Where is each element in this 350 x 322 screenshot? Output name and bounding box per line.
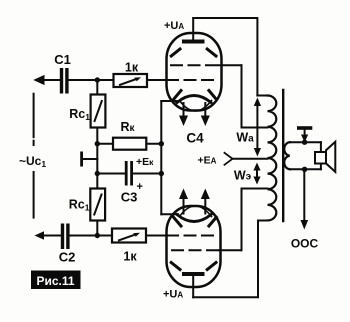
svg-text:+: + — [137, 181, 143, 193]
input source line ~Uc1 — [19, 94, 46, 218]
svg-text:Рис.11: Рис.11 — [36, 274, 74, 288]
wire R2 to V2 grid — [146, 235, 167, 237]
V2 screen grid (dashed) — [172, 249, 242, 251]
V2 beam plates — [171, 217, 216, 269]
svg-text:Rк: Rк — [121, 120, 136, 134]
resistor Rc1 (bottom) — [69, 174, 105, 236]
V2 control grid (dashed) — [167, 235, 214, 237]
node secondary bottom — [302, 167, 307, 172]
V2 anode — [182, 272, 205, 297]
V2 cathode stub to rail — [161, 213, 178, 215]
OOC feedback arrow — [291, 169, 319, 250]
transformer secondary winding — [284, 142, 321, 169]
node B — [95, 141, 100, 146]
svg-text:~Uc1: ~Uc1 — [19, 154, 46, 169]
capacitor C1 — [35, 52, 71, 94]
node D — [95, 171, 100, 176]
svg-text:C2: C2 — [59, 250, 76, 265]
transformer T1 primary winding — [232, 96, 276, 221]
V1 control grid (dashed) — [167, 79, 214, 81]
svg-text:+UА: +UА — [164, 20, 184, 32]
ground (secondary top, T-bar) — [297, 126, 312, 142]
svg-text:ООС: ООС — [291, 237, 319, 251]
V2 screen wire to tap 2 — [242, 189, 268, 251]
resistor Rk — [97, 120, 161, 150]
svg-text:Wа: Wа — [236, 131, 254, 145]
tube V2 envelope (bottom) — [167, 206, 221, 287]
svg-text:+EА: +EА — [198, 155, 217, 167]
potentiometer R1 1k (top) — [114, 61, 148, 88]
V1 screen grid (dashed) — [171, 64, 242, 66]
node A (junction C1/R1/Rc1) — [95, 77, 100, 82]
tube V1 envelope (top) — [167, 33, 222, 111]
svg-text:+UА: +UА — [163, 289, 183, 301]
label +Ea with arrow — [198, 153, 233, 167]
potentiometer R2 1k (bottom) — [112, 229, 146, 264]
wire C1 to R1 — [69, 79, 114, 81]
transformer core — [282, 90, 284, 221]
V1 anode wire to transformer top — [193, 18, 257, 96]
wire node B down to node D — [96, 144, 98, 174]
capacitor C2 — [35, 224, 76, 265]
svg-text:+Eк: +Eк — [136, 156, 154, 168]
V2 cathode — [177, 206, 212, 222]
V1 cathode stub to rail — [161, 100, 177, 102]
svg-text:Wэ: Wэ — [234, 169, 252, 183]
figure label Ris.11 — [31, 271, 81, 290]
svg-text:C4: C4 — [186, 131, 204, 146]
speaker BA1 — [315, 142, 335, 172]
V1 cathode lead arrows — [179, 103, 210, 126]
svg-text:Rc1: Rc1 — [69, 107, 90, 122]
node E (junction C2/R2/Rc1) — [95, 233, 100, 238]
node C3 right on cathode rail — [159, 171, 164, 176]
ground (chassis bar) — [80, 152, 97, 167]
V1 beam plates — [171, 49, 216, 99]
wire C2 to R2 — [70, 235, 112, 237]
node on cathode rail (Rk) — [159, 141, 164, 146]
cathode rail — [160, 101, 162, 214]
V1 cathode — [177, 96, 212, 112]
V1 screen wire to tap 1 — [242, 65, 268, 127]
V2 anode wire to transformer bottom — [193, 221, 258, 298]
winding span arrow Wa — [236, 98, 261, 157]
svg-text:C1: C1 — [54, 52, 71, 67]
V2 cathode lead arrows — [179, 189, 210, 214]
winding span arrow We — [234, 163, 261, 185]
V1 anode — [182, 18, 205, 44]
svg-text:C3: C3 — [121, 190, 138, 205]
node secondary top — [302, 140, 307, 145]
svg-text:1к: 1к — [125, 61, 139, 75]
capacitor C3 — [97, 161, 161, 205]
wire R1 to V1 grid — [147, 79, 167, 81]
svg-text:1к: 1к — [123, 250, 137, 264]
resistor Rc1 (top) — [69, 82, 105, 144]
svg-text:Rc1: Rc1 — [69, 198, 90, 213]
